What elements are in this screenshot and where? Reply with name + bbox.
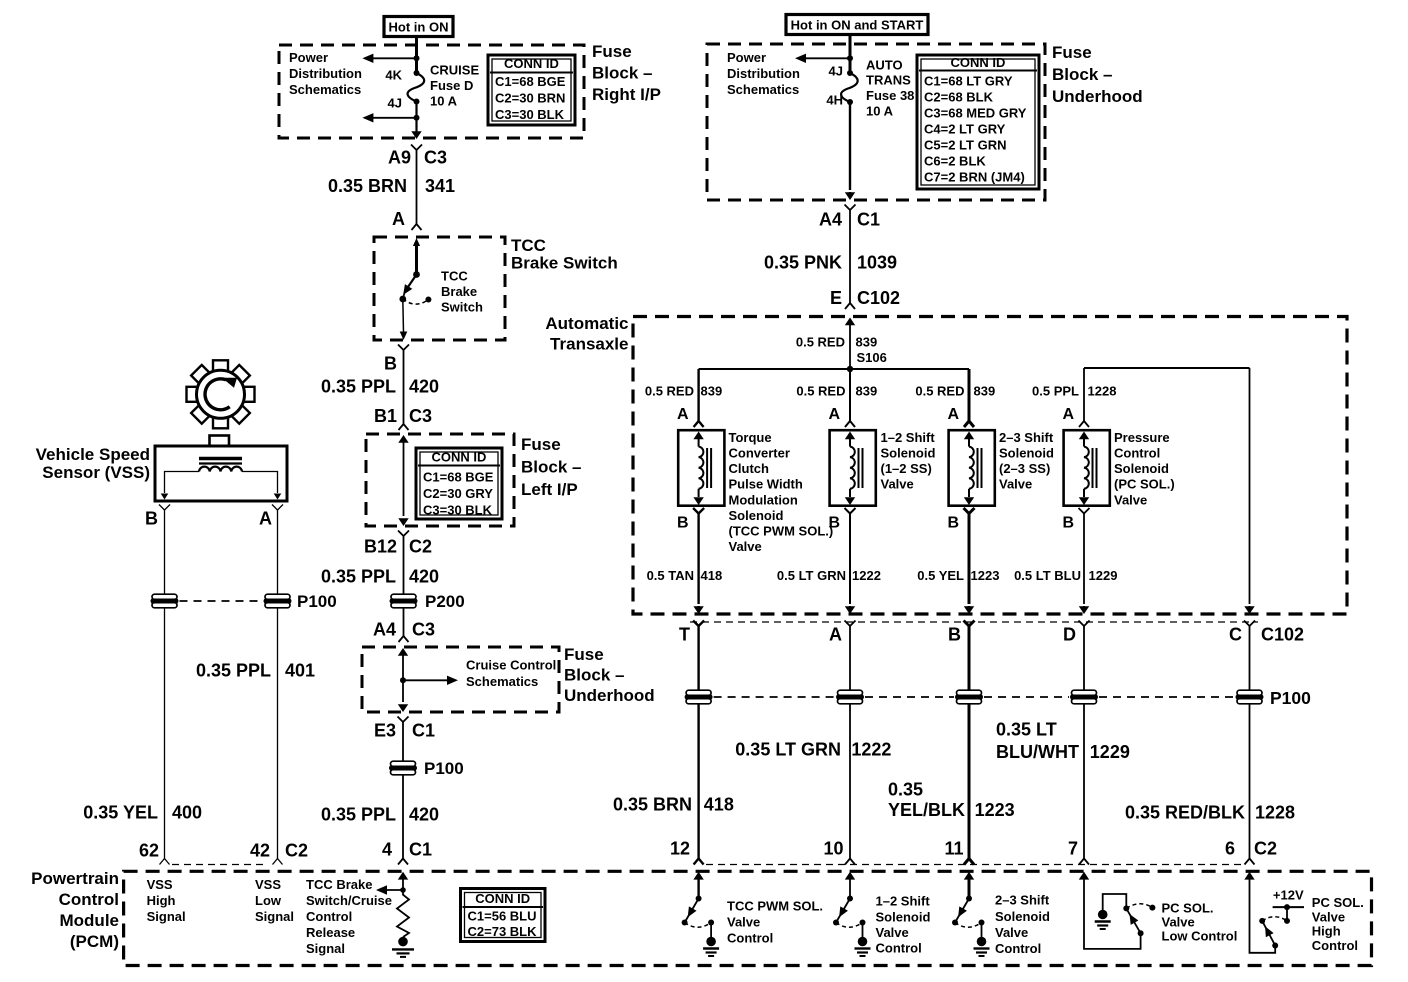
svg-text:0.5 RED: 0.5 RED	[915, 384, 964, 399]
svg-text:A: A	[947, 406, 959, 423]
svg-text:Solenoid: Solenoid	[1114, 461, 1169, 476]
svg-text:10 A: 10 A	[866, 104, 894, 119]
svg-text:Fuse: Fuse	[521, 435, 561, 454]
svg-text:C2: C2	[1254, 838, 1277, 858]
svg-text:420: 420	[409, 376, 439, 396]
svg-text:CONN ID: CONN ID	[504, 56, 559, 71]
svg-text:PC SOL.: PC SOL.	[1162, 901, 1214, 916]
svg-text:C3: C3	[412, 619, 435, 639]
svg-text:0.5 LT GRN: 0.5 LT GRN	[777, 568, 846, 583]
svg-text:0.35 PPL: 0.35 PPL	[321, 566, 396, 586]
svg-text:Block –: Block –	[1052, 65, 1112, 84]
svg-text:TCC Brake: TCC Brake	[306, 877, 372, 892]
svg-text:B1: B1	[374, 406, 397, 426]
svg-text:TCC: TCC	[511, 236, 546, 255]
svg-text:Control: Control	[306, 909, 352, 924]
svg-text:Automatic: Automatic	[545, 314, 628, 333]
svg-text:A: A	[677, 406, 689, 423]
svg-text:C6=2 BLK: C6=2 BLK	[924, 154, 986, 169]
svg-text:Left I/P: Left I/P	[521, 480, 578, 499]
svg-text:Schematics: Schematics	[466, 674, 538, 689]
svg-text:Switch/Cruise: Switch/Cruise	[306, 893, 392, 908]
svg-text:P100: P100	[424, 759, 464, 778]
svg-text:Control: Control	[59, 890, 119, 909]
svg-text:0.35 YEL: 0.35 YEL	[83, 802, 158, 822]
svg-text:11: 11	[944, 838, 963, 858]
svg-text:0.35 BRN: 0.35 BRN	[328, 176, 407, 196]
svg-text:E3: E3	[374, 720, 396, 740]
svg-text:BLU/WHT: BLU/WHT	[996, 742, 1079, 762]
svg-text:C3=68 MED GRY: C3=68 MED GRY	[924, 106, 1027, 121]
svg-text:0.5 RED: 0.5 RED	[796, 384, 845, 399]
svg-text:C1: C1	[857, 209, 880, 229]
svg-text:4J: 4J	[829, 64, 843, 79]
svg-text:Control: Control	[995, 941, 1041, 956]
svg-text:Solenoid: Solenoid	[876, 909, 931, 924]
svg-text:+12V: +12V	[1273, 888, 1304, 903]
svg-text:Block –: Block –	[521, 458, 581, 477]
svg-text:Block –: Block –	[564, 666, 624, 685]
svg-text:P100: P100	[1270, 688, 1311, 708]
svg-text:CONN ID: CONN ID	[432, 450, 487, 465]
svg-text:0.35 PPL: 0.35 PPL	[321, 376, 396, 396]
svg-text:0.5 PPL: 0.5 PPL	[1032, 384, 1079, 399]
svg-text:C102: C102	[1261, 624, 1304, 644]
svg-text:C5=2 LT GRN: C5=2 LT GRN	[924, 138, 1006, 153]
svg-text:Valve: Valve	[1312, 910, 1345, 925]
svg-text:A4: A4	[819, 209, 842, 229]
svg-text:(TCC PWM SOL.): (TCC PWM SOL.)	[729, 524, 834, 539]
svg-text:C2=30 GRY: C2=30 GRY	[423, 486, 493, 501]
svg-text:CONN ID: CONN ID	[951, 55, 1006, 70]
svg-text:C1=56 BLU: C1=56 BLU	[468, 908, 537, 923]
svg-text:0.5 RED: 0.5 RED	[645, 384, 694, 399]
svg-text:C2: C2	[409, 536, 432, 556]
svg-text:C2=73 BLK: C2=73 BLK	[468, 924, 538, 939]
svg-text:A9: A9	[388, 147, 411, 167]
svg-text:Solenoid: Solenoid	[995, 909, 1050, 924]
svg-text:A: A	[392, 209, 405, 229]
svg-text:341: 341	[425, 176, 455, 196]
svg-text:10 A: 10 A	[430, 94, 458, 109]
svg-text:1228: 1228	[1088, 384, 1117, 399]
svg-text:YEL/BLK: YEL/BLK	[888, 800, 965, 820]
svg-text:420: 420	[409, 804, 439, 824]
svg-text:418: 418	[704, 794, 734, 814]
svg-text:Cruise Control: Cruise Control	[466, 658, 556, 673]
svg-text:Right I/P: Right I/P	[592, 85, 661, 104]
svg-text:Valve: Valve	[1114, 492, 1147, 507]
svg-text:Schematics: Schematics	[727, 82, 799, 97]
svg-text:1223: 1223	[975, 800, 1015, 820]
svg-text:AUTO: AUTO	[866, 58, 903, 73]
svg-text:Transaxle: Transaxle	[550, 335, 628, 354]
svg-text:Brake: Brake	[441, 284, 477, 299]
svg-text:C2=68 BLK: C2=68 BLK	[924, 90, 994, 105]
svg-text:High: High	[147, 893, 176, 908]
svg-text:Low Control: Low Control	[1162, 929, 1238, 944]
svg-text:(PC SOL.): (PC SOL.)	[1114, 477, 1175, 492]
svg-text:4K: 4K	[385, 68, 402, 83]
svg-text:C4=2 LT GRY: C4=2 LT GRY	[924, 122, 1006, 137]
svg-text:400: 400	[172, 802, 202, 822]
svg-text:Vehicle Speed: Vehicle Speed	[36, 445, 150, 464]
svg-text:Sensor (VSS): Sensor (VSS)	[42, 463, 150, 482]
svg-text:1229: 1229	[1089, 568, 1118, 583]
svg-text:C102: C102	[857, 288, 900, 308]
svg-text:Hot in ON and START: Hot in ON and START	[791, 17, 924, 32]
svg-text:C1=68 BGE: C1=68 BGE	[495, 74, 566, 89]
svg-text:C7=2 BRN (JM4): C7=2 BRN (JM4)	[924, 170, 1025, 185]
svg-text:62: 62	[139, 840, 159, 860]
svg-text:420: 420	[409, 566, 439, 586]
svg-text:839: 839	[701, 384, 723, 399]
svg-text:7: 7	[1068, 838, 1078, 858]
svg-text:Valve: Valve	[995, 925, 1028, 940]
svg-text:Distribution: Distribution	[727, 66, 800, 81]
svg-text:Control: Control	[1114, 446, 1160, 461]
svg-text:C1: C1	[409, 839, 432, 859]
svg-text:6: 6	[1225, 838, 1235, 858]
svg-text:Switch: Switch	[441, 300, 483, 315]
svg-text:Pressure: Pressure	[1114, 430, 1170, 445]
svg-text:C1: C1	[412, 720, 435, 740]
svg-text:Underhood: Underhood	[564, 686, 655, 705]
svg-text:2–3 Shift: 2–3 Shift	[995, 893, 1050, 908]
svg-text:1–2 Shift: 1–2 Shift	[881, 430, 936, 445]
svg-text:Valve: Valve	[876, 925, 909, 940]
svg-text:1223: 1223	[971, 568, 1000, 583]
svg-text:Torque: Torque	[729, 430, 772, 445]
svg-text:0.35 RED/BLK: 0.35 RED/BLK	[1125, 802, 1245, 822]
svg-text:Modulation: Modulation	[729, 492, 798, 507]
svg-text:42: 42	[250, 840, 270, 860]
svg-text:0.35 PPL: 0.35 PPL	[321, 804, 396, 824]
svg-text:1222: 1222	[851, 739, 891, 759]
svg-text:Valve: Valve	[1162, 915, 1195, 930]
svg-text:C1=68 BGE: C1=68 BGE	[423, 470, 494, 485]
svg-text:Low: Low	[255, 893, 282, 908]
svg-text:High: High	[1312, 924, 1341, 939]
svg-text:B12: B12	[364, 536, 397, 556]
svg-text:839: 839	[856, 335, 878, 350]
svg-text:1–2 Shift: 1–2 Shift	[876, 894, 931, 909]
svg-text:Control: Control	[876, 941, 922, 956]
svg-text:C3=30 BLK: C3=30 BLK	[495, 107, 565, 122]
svg-text:1222: 1222	[852, 568, 881, 583]
svg-text:0.5 LT BLU: 0.5 LT BLU	[1014, 568, 1081, 583]
svg-text:401: 401	[285, 660, 315, 680]
svg-text:D: D	[1063, 624, 1076, 644]
svg-text:Pulse Width: Pulse Width	[729, 477, 803, 492]
svg-text:Signal: Signal	[306, 941, 345, 956]
svg-text:Release: Release	[306, 925, 355, 940]
svg-text:Valve: Valve	[727, 915, 760, 930]
svg-text:Power: Power	[289, 50, 328, 65]
svg-text:(PCM): (PCM)	[70, 932, 119, 951]
svg-text:(2–3 SS): (2–3 SS)	[999, 461, 1050, 476]
svg-text:0.35 LT: 0.35 LT	[996, 719, 1057, 739]
svg-text:Solenoid: Solenoid	[999, 446, 1054, 461]
svg-text:Powertrain: Powertrain	[31, 869, 119, 888]
svg-text:839: 839	[856, 384, 878, 399]
svg-text:Control: Control	[727, 931, 773, 946]
svg-text:0.5 TAN: 0.5 TAN	[647, 568, 694, 583]
svg-text:Module: Module	[60, 911, 120, 930]
svg-text:0.35 PNK: 0.35 PNK	[764, 252, 842, 272]
svg-text:P100: P100	[297, 592, 337, 611]
svg-text:VSS: VSS	[147, 877, 173, 892]
svg-text:Signal: Signal	[147, 909, 186, 924]
svg-text:1039: 1039	[857, 252, 897, 272]
svg-text:Hot in ON: Hot in ON	[389, 19, 449, 34]
svg-text:4: 4	[382, 839, 392, 859]
svg-text:B: B	[947, 515, 959, 532]
svg-text:A: A	[1062, 406, 1074, 423]
svg-text:B: B	[145, 508, 158, 528]
svg-text:C1=68 LT GRY: C1=68 LT GRY	[924, 74, 1013, 89]
svg-text:C2: C2	[285, 840, 308, 860]
svg-text:Solenoid: Solenoid	[881, 446, 936, 461]
svg-text:0.35 BRN: 0.35 BRN	[613, 794, 692, 814]
svg-text:PC SOL.: PC SOL.	[1312, 895, 1364, 910]
svg-text:Distribution: Distribution	[289, 66, 362, 81]
svg-text:Underhood: Underhood	[1052, 87, 1143, 106]
svg-text:4J: 4J	[388, 96, 402, 111]
svg-text:CONN ID: CONN ID	[475, 891, 530, 906]
svg-text:C3: C3	[424, 147, 447, 167]
svg-text:Fuse: Fuse	[564, 645, 604, 664]
svg-text:E: E	[830, 288, 842, 308]
svg-text:Signal: Signal	[255, 909, 294, 924]
svg-text:10: 10	[823, 838, 843, 858]
svg-text:VSS: VSS	[255, 877, 281, 892]
svg-text:TCC: TCC	[441, 269, 468, 284]
svg-text:P200: P200	[425, 592, 465, 611]
svg-text:0.5 YEL: 0.5 YEL	[917, 568, 964, 583]
svg-text:C3: C3	[409, 406, 432, 426]
svg-text:Solenoid: Solenoid	[729, 508, 784, 523]
svg-text:0.35: 0.35	[888, 779, 923, 799]
svg-text:A: A	[828, 406, 840, 423]
svg-text:Valve: Valve	[729, 539, 762, 554]
svg-text:TCC PWM SOL.: TCC PWM SOL.	[727, 899, 823, 914]
svg-text:1228: 1228	[1255, 802, 1295, 822]
svg-text:(1–2 SS): (1–2 SS)	[881, 461, 932, 476]
svg-text:T: T	[679, 624, 690, 644]
svg-text:A: A	[829, 624, 842, 644]
svg-text:A4: A4	[373, 619, 396, 639]
svg-text:Brake Switch: Brake Switch	[511, 253, 618, 272]
svg-text:TRANS: TRANS	[866, 73, 911, 88]
svg-text:0.35 LT GRN: 0.35 LT GRN	[735, 739, 841, 759]
svg-text:Fuse D: Fuse D	[430, 78, 473, 93]
svg-text:12: 12	[670, 838, 690, 858]
svg-text:0.35 PPL: 0.35 PPL	[196, 660, 271, 680]
svg-text:B: B	[677, 515, 689, 532]
svg-text:839: 839	[974, 384, 996, 399]
svg-text:1229: 1229	[1090, 742, 1130, 762]
svg-text:Schematics: Schematics	[289, 82, 361, 97]
svg-text:Fuse: Fuse	[592, 42, 632, 61]
svg-text:C3=30 BLK: C3=30 BLK	[423, 503, 493, 518]
svg-text:Converter: Converter	[729, 446, 790, 461]
svg-text:A: A	[259, 508, 272, 528]
svg-text:Fuse: Fuse	[1052, 43, 1092, 62]
svg-text:Block –: Block –	[592, 64, 652, 83]
svg-text:Clutch: Clutch	[729, 461, 770, 476]
svg-text:418: 418	[701, 568, 723, 583]
svg-text:B: B	[384, 353, 397, 373]
svg-text:B: B	[1062, 515, 1074, 532]
svg-text:Power: Power	[727, 50, 766, 65]
svg-text:C2=30 BRN: C2=30 BRN	[495, 91, 565, 106]
svg-text:CRUISE: CRUISE	[430, 63, 479, 78]
svg-text:Fuse 38: Fuse 38	[866, 88, 914, 103]
svg-text:S106: S106	[857, 350, 887, 365]
svg-text:B: B	[948, 624, 961, 644]
svg-text:Valve: Valve	[881, 477, 914, 492]
svg-text:Control: Control	[1312, 938, 1358, 953]
svg-text:2–3 Shift: 2–3 Shift	[999, 430, 1054, 445]
svg-text:0.5 RED: 0.5 RED	[796, 335, 845, 350]
svg-text:Valve: Valve	[999, 477, 1032, 492]
svg-text:C: C	[1229, 624, 1242, 644]
